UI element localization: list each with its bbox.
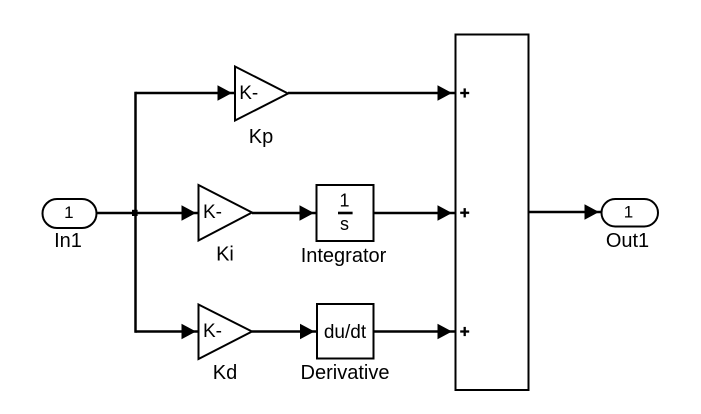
svg-text:Out1: Out1 bbox=[606, 230, 649, 252]
wire sum to Out1 bbox=[529, 211, 602, 214]
output port Out1 bbox=[602, 199, 659, 227]
input port In1 bbox=[43, 199, 97, 228]
svg-text:s: s bbox=[340, 214, 349, 234]
sum pin + (bottom) bbox=[460, 327, 469, 336]
sum pin + (top) bbox=[460, 88, 469, 97]
arrowhead into sum (middle) bbox=[438, 205, 453, 221]
wire Kp to sum bbox=[288, 92, 455, 95]
arrowhead into Kd bbox=[182, 324, 197, 340]
sum block bbox=[456, 35, 529, 391]
svg-text:Integrator: Integrator bbox=[301, 245, 387, 267]
wire Derivative to sum bbox=[374, 330, 456, 333]
svg-text:1: 1 bbox=[339, 191, 349, 211]
derivative U2 bbox=[317, 304, 374, 359]
wire node A to gain Ki bbox=[136, 212, 199, 215]
svg-text:K-: K- bbox=[239, 83, 258, 104]
wire In1 to node A bbox=[97, 212, 136, 215]
svg-text:K-: K- bbox=[203, 202, 222, 223]
gain Ki bbox=[199, 185, 253, 241]
gain Kd bbox=[199, 305, 253, 360]
svg-text:Kd: Kd bbox=[213, 362, 237, 384]
wire node A to gain Kd bbox=[136, 330, 199, 333]
svg-text:Derivative: Derivative bbox=[301, 362, 390, 384]
gain Kp bbox=[235, 67, 288, 121]
arrowhead into Kp bbox=[218, 85, 233, 101]
svg-text:1: 1 bbox=[64, 203, 73, 222]
arrowhead into Integrator bbox=[300, 205, 315, 221]
integrator U1 bbox=[317, 185, 374, 241]
arrowhead into Ki bbox=[182, 205, 197, 221]
svg-text:Ki: Ki bbox=[216, 244, 234, 266]
wire node A to gain Kp bbox=[136, 92, 236, 95]
svg-text:Kp: Kp bbox=[249, 126, 273, 148]
wire Integrator to sum bbox=[374, 212, 456, 215]
arrowhead into sum (top) bbox=[438, 85, 453, 101]
sum pin + (middle) bbox=[460, 208, 469, 217]
svg-text:1: 1 bbox=[624, 203, 633, 222]
svg-text:du/dt: du/dt bbox=[324, 322, 367, 343]
wire Ki to Integrator bbox=[252, 212, 317, 215]
arrowhead into sum (bottom) bbox=[438, 324, 453, 340]
arrowhead into Derivative bbox=[300, 324, 315, 340]
node A junction bbox=[132, 210, 138, 216]
wire branch vertical bbox=[134, 92, 137, 333]
wire Kd to Derivative bbox=[252, 330, 317, 333]
svg-text:In1: In1 bbox=[54, 230, 82, 252]
arrowhead into Out1 bbox=[585, 204, 600, 220]
svg-text:K-: K- bbox=[203, 321, 222, 342]
